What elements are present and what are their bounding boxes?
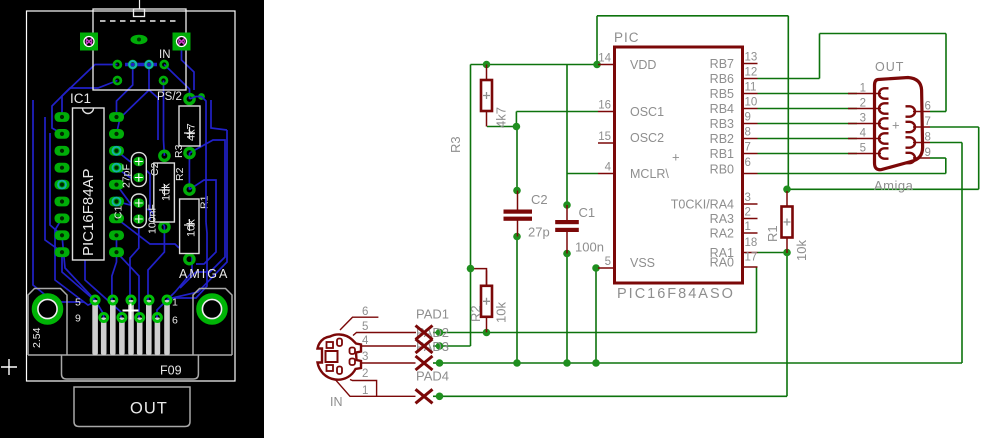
junction C1 bottom bbox=[563, 250, 571, 258]
DB9 pin 5 bbox=[848, 143, 889, 159]
junction OSC1 node bbox=[513, 123, 521, 131]
wire trace PS2 pad1 to IC1 left bbox=[62, 65, 117, 118]
wire C1 bottom drop bbox=[566, 254, 568, 364]
op-amp / IC U1 PIC16F84 bbox=[614, 30, 743, 302]
via top right bbox=[198, 93, 205, 100]
junction R1 bottom bbox=[783, 249, 791, 257]
F09 mounting hole right bbox=[199, 296, 225, 322]
wire DB9 pin7 wire bbox=[930, 126, 979, 128]
svg-text:10k: 10k bbox=[794, 240, 809, 261]
wire RB6 wire bbox=[758, 78, 820, 80]
IC IC1 outline bbox=[70, 91, 104, 260]
F09 pad 1 bbox=[91, 296, 99, 304]
svg-text:7: 7 bbox=[745, 142, 751, 154]
svg-text:RA2: RA2 bbox=[710, 227, 734, 241]
wire trace left inner bbox=[45, 117, 62, 252]
svg-text:4: 4 bbox=[605, 162, 612, 174]
connector X1 mini-DIN IN bbox=[318, 334, 362, 379]
PIC pin 11 RB5 bbox=[710, 82, 758, 102]
DIN pin 5 bbox=[353, 321, 416, 336]
DIN pin 2 bbox=[350, 368, 377, 396]
svg-text:R2: R2 bbox=[174, 167, 186, 181]
via highlight cyan IC pads bbox=[113, 147, 121, 155]
junction R3 top bbox=[483, 61, 491, 69]
svg-text:100nF: 100nF bbox=[147, 204, 159, 234]
svg-text:4: 4 bbox=[860, 128, 867, 140]
svg-text:100n: 100n bbox=[575, 240, 604, 255]
board outline bbox=[27, 11, 236, 381]
F09 pin bar 1 bbox=[92, 300, 98, 355]
PIC pin 7 RB1 bbox=[710, 142, 758, 162]
svg-text:RB3: RB3 bbox=[710, 117, 734, 131]
svg-text:4: 4 bbox=[362, 335, 369, 347]
wire trace PS2 pads 2-3 bridge bbox=[125, 63, 157, 67]
wire trace right v1 bbox=[189, 180, 216, 264]
F09 pin bar 4 bbox=[146, 300, 152, 355]
junction R2 bottom bbox=[483, 329, 491, 337]
PIC pin 13 RB7 bbox=[710, 52, 758, 72]
F09 mounting hole left bbox=[35, 296, 61, 322]
connector F09 footprint bbox=[28, 289, 232, 427]
svg-text:6: 6 bbox=[925, 101, 931, 113]
wire trace IC1 to F09 pad4 bbox=[112, 235, 117, 301]
resistor R2 (PCB) bbox=[154, 151, 186, 231]
wire VCC to VDD bbox=[471, 64, 599, 66]
svg-text:9: 9 bbox=[75, 313, 81, 325]
F09 pad 8 bbox=[136, 314, 144, 322]
svg-text:RB7: RB7 bbox=[710, 57, 734, 71]
wire C2 top riser bbox=[516, 127, 518, 191]
PIC pin 17 RA0 bbox=[710, 252, 758, 270]
svg-text:10k: 10k bbox=[161, 183, 173, 201]
F09 origin cross bbox=[123, 304, 139, 320]
wire trace IC1 pin9 to F09 pad5 bbox=[62, 252, 96, 301]
PIC pin 3 T0CKI/RA4 bbox=[671, 192, 758, 212]
wire trace under ic bbox=[85, 260, 121, 318]
board edge cross bbox=[1, 359, 17, 375]
wire PAD4 out bbox=[433, 395, 443, 397]
wire trace right v2 bbox=[180, 140, 225, 288]
wire PAD2 out bbox=[433, 345, 443, 347]
PIC pin 1 RA2 bbox=[710, 221, 758, 241]
IC1 pad right 4 bbox=[109, 163, 124, 173]
IC1 pad left 5 bbox=[55, 180, 70, 190]
PCB layout panel background bbox=[0, 0, 264, 438]
PS2 pad 1 bbox=[114, 61, 121, 68]
svg-text:VDD: VDD bbox=[630, 58, 656, 72]
PIC pin 2 RA3 bbox=[710, 207, 758, 227]
F09 pin labels bbox=[75, 297, 178, 327]
wire R3 bottom to OSC1 bbox=[487, 126, 516, 128]
wire MCLR wire bbox=[567, 173, 598, 175]
wire VCC rail vertical bbox=[470, 65, 472, 347]
svg-text:9: 9 bbox=[745, 112, 751, 124]
wire pin8 drop bbox=[961, 143, 963, 364]
DB9 pin 2 bbox=[848, 98, 889, 114]
svg-text:4k7: 4k7 bbox=[186, 123, 198, 141]
svg-text:1: 1 bbox=[172, 297, 178, 309]
svg-text:3: 3 bbox=[860, 113, 866, 125]
pad symbol PAD3 X bbox=[416, 356, 433, 370]
svg-text:PAD1: PAD1 bbox=[416, 307, 449, 322]
junction R2 branch bbox=[467, 265, 475, 273]
junction C2 bottom bbox=[513, 233, 521, 241]
IC1 pad left 4 bbox=[55, 163, 70, 173]
svg-text:AMIGA: AMIGA bbox=[179, 267, 229, 281]
svg-text:PAD4: PAD4 bbox=[416, 369, 449, 384]
svg-text:R2: R2 bbox=[468, 305, 483, 322]
svg-text:+: + bbox=[892, 118, 900, 133]
svg-text:2: 2 bbox=[860, 98, 866, 110]
svg-text:5: 5 bbox=[605, 256, 611, 268]
wire DB9 pin9 wire bbox=[930, 157, 946, 159]
wire pin7 riser bbox=[978, 127, 980, 189]
wire VDD top horizontal bbox=[597, 15, 788, 17]
wire DB9 pin6 riser bbox=[945, 34, 947, 112]
svg-text:10k: 10k bbox=[186, 219, 198, 237]
svg-text:5: 5 bbox=[362, 321, 368, 333]
svg-text:16: 16 bbox=[598, 100, 611, 112]
junction GND VSS bbox=[592, 359, 600, 367]
wire RA0 row bbox=[440, 332, 757, 334]
svg-text:13: 13 bbox=[745, 52, 758, 64]
svg-text:MCLR\: MCLR\ bbox=[630, 167, 669, 181]
svg-text:PIC16F84AP: PIC16F84AP bbox=[80, 168, 97, 256]
wire RA0 riser bbox=[756, 267, 758, 333]
svg-text:C1: C1 bbox=[579, 205, 596, 220]
wire trace IC1 to R1 bottom bbox=[117, 218, 180, 248]
wire RB4 to DB9 pin2 bbox=[758, 108, 858, 110]
junction PAD1 node bbox=[436, 329, 444, 337]
svg-text:7: 7 bbox=[925, 116, 931, 128]
PIC pin 18 RA1 bbox=[710, 237, 758, 260]
F09 pin bar 5 bbox=[164, 300, 170, 355]
svg-text:5: 5 bbox=[75, 297, 81, 309]
PIC pin 8 RB2 bbox=[710, 127, 758, 147]
F09 pin bar 8 bbox=[137, 318, 143, 356]
svg-text:RB6: RB6 bbox=[710, 72, 734, 86]
PIC pin 4 MCLR\ bbox=[598, 162, 669, 182]
pad symbol PAD2 X bbox=[416, 339, 433, 353]
DIN pin 4 bbox=[361, 335, 416, 347]
svg-text:18: 18 bbox=[745, 237, 758, 249]
wire RB0 wire bbox=[758, 173, 946, 175]
svg-text:8: 8 bbox=[925, 132, 931, 144]
PS2 pad 2 bbox=[129, 61, 136, 68]
wire DB9 pin9 riser bbox=[945, 158, 947, 174]
svg-text:6: 6 bbox=[172, 315, 178, 327]
junction C1 top bbox=[563, 201, 571, 209]
F09 pin bar 2 bbox=[110, 300, 116, 355]
wire trace PS2 pad6 to R2 bbox=[163, 81, 166, 156]
wire trace IC1 to C2 pad2 bbox=[117, 168, 139, 178]
svg-text:4k7: 4k7 bbox=[494, 107, 509, 128]
svg-text:R3: R3 bbox=[448, 136, 463, 153]
wire R1 top to pin7 horizontal bbox=[787, 188, 979, 190]
svg-text:OSC1: OSC1 bbox=[630, 105, 664, 119]
resistor R1 (PCB) bbox=[180, 185, 211, 264]
F09 pin bar 7 bbox=[119, 318, 125, 356]
IC1 pad left 7 bbox=[55, 214, 70, 224]
svg-text:R1: R1 bbox=[765, 225, 780, 242]
svg-text:6: 6 bbox=[362, 306, 368, 318]
IC1 pad right 7 bbox=[109, 214, 124, 224]
wire trace right vertical R1 bbox=[165, 222, 207, 302]
wire trace right upper bbox=[211, 100, 227, 130]
PIC pin 5 VSS bbox=[598, 256, 655, 270]
svg-text:R1: R1 bbox=[199, 195, 211, 209]
IC1 pad left 9 bbox=[55, 247, 70, 257]
svg-text:RA3: RA3 bbox=[710, 212, 734, 226]
DIN pin 3 bbox=[361, 351, 416, 363]
IC1 pad left 6 bbox=[55, 197, 70, 207]
wire R2 top branch bbox=[471, 269, 487, 286]
svg-text:IN: IN bbox=[330, 395, 343, 409]
svg-text:PIC16F84ASO: PIC16F84ASO bbox=[617, 286, 735, 302]
wire PAD1 out bbox=[433, 332, 443, 334]
svg-text:PIC: PIC bbox=[614, 30, 640, 45]
DB9 pin 9 bbox=[906, 147, 931, 163]
svg-text:OUT: OUT bbox=[875, 60, 904, 74]
wire trace IC1 to C1 bbox=[117, 185, 139, 203]
svg-text:OSC2: OSC2 bbox=[630, 131, 664, 145]
wire trace IC1 to F09 pad9 bbox=[62, 235, 104, 318]
svg-text:2: 2 bbox=[362, 368, 368, 380]
PS2 pad 6 bbox=[160, 77, 167, 84]
wire VDD riser bbox=[596, 16, 598, 65]
svg-text:F09: F09 bbox=[160, 364, 182, 378]
wire trace PS2 pad2 to IC1 right bbox=[117, 65, 133, 118]
connector X2 DB9 OUT bbox=[874, 60, 923, 193]
junction PAD2 node bbox=[436, 342, 444, 350]
wire trace C2 right bbox=[146, 170, 150, 220]
svg-text:1: 1 bbox=[860, 83, 866, 95]
DB9 pin 3 bbox=[848, 113, 889, 129]
wire RB1 to DB9 pin5 bbox=[758, 153, 858, 155]
svg-text:6: 6 bbox=[745, 157, 751, 169]
svg-text:C2: C2 bbox=[149, 162, 161, 176]
IC1 pad left 1 bbox=[55, 112, 70, 122]
wire RB3 to DB9 pin3 bbox=[758, 123, 858, 125]
wire VSS drop bbox=[595, 268, 597, 363]
junction VDD riser bbox=[593, 61, 601, 69]
wire trace via link bbox=[190, 97, 202, 100]
PS2 pad 3 bbox=[146, 61, 153, 68]
junction GND C2 bbox=[513, 359, 521, 367]
IC1 pad left 2 bbox=[55, 129, 70, 139]
wire trace IC1 to C2 bbox=[117, 151, 139, 162]
IC1 pad right 8 bbox=[109, 230, 124, 240]
PS2 pad 5 bbox=[114, 77, 121, 84]
IC1 pad right 1 bbox=[109, 112, 124, 122]
wire DB9 pin8 wire bbox=[930, 142, 962, 144]
pad symbol PAD1 X bbox=[416, 326, 433, 340]
resistor R2 bbox=[468, 270, 509, 332]
wire RB6 top horizontal bbox=[820, 33, 947, 35]
svg-text:10: 10 bbox=[745, 97, 758, 109]
PIC pin 16 OSC1 bbox=[598, 100, 664, 120]
PS2 mounting pad left bbox=[80, 33, 98, 51]
svg-text:RB4: RB4 bbox=[710, 102, 734, 116]
DIN pin 1 bbox=[336, 380, 416, 397]
svg-text:RA0: RA0 bbox=[710, 256, 734, 270]
IC1 pad right 3 bbox=[109, 146, 124, 156]
wire PAD4 row bbox=[440, 395, 787, 397]
wire RB2 to DB9 pin4 bbox=[758, 138, 858, 140]
PS2 mounting pad right bbox=[173, 33, 191, 51]
pad symbol PAD4 X bbox=[416, 389, 433, 403]
svg-text:C2: C2 bbox=[531, 192, 548, 207]
resistor R3 (PCB) bbox=[173, 94, 200, 158]
svg-text:Amiga: Amiga bbox=[874, 178, 914, 193]
DB9 pin 7 bbox=[906, 116, 931, 132]
wire GND row bbox=[440, 362, 962, 364]
svg-text:RB1: RB1 bbox=[710, 147, 734, 161]
svg-text:3: 3 bbox=[362, 351, 368, 363]
DB9 pin 4 bbox=[848, 128, 889, 144]
svg-text:RB2: RB2 bbox=[710, 132, 734, 146]
svg-text:17: 17 bbox=[745, 252, 758, 264]
wire OSC1 wire bbox=[516, 111, 598, 113]
wire RB6 riser bbox=[819, 34, 821, 79]
F09 pad 9 bbox=[153, 314, 161, 322]
wire trace R2 to F09 pad2 bbox=[148, 226, 164, 302]
IC1 pad right 5 bbox=[109, 180, 124, 190]
svg-text:5: 5 bbox=[860, 143, 866, 155]
junction R1 top bbox=[783, 186, 791, 194]
IC1 pad left 8 bbox=[55, 230, 70, 240]
svg-text:IN: IN bbox=[159, 49, 171, 61]
svg-text:2: 2 bbox=[745, 207, 751, 219]
F09 pad 7 bbox=[118, 314, 126, 322]
resistor R3 bbox=[448, 65, 509, 154]
via highlight cyan bbox=[129, 61, 136, 68]
svg-text:8: 8 bbox=[745, 127, 751, 139]
PS2 pad 4 bbox=[161, 61, 168, 68]
wire trace left rail bbox=[33, 100, 84, 302]
capacitor C1 bbox=[555, 205, 604, 255]
wire OSC1 drop bbox=[515, 112, 517, 127]
wire trace ic bottom fan2 bbox=[55, 218, 96, 305]
wire C2 bottom drop bbox=[516, 237, 518, 364]
svg-text:12: 12 bbox=[745, 67, 758, 79]
IC1 pad right 6 bbox=[109, 197, 124, 207]
capacitor C2 bbox=[504, 191, 550, 240]
svg-text:+: + bbox=[672, 150, 680, 165]
junction VSS bbox=[592, 264, 600, 272]
DB9 pin 1 bbox=[848, 83, 889, 99]
PS2 shield oval pad bbox=[131, 35, 148, 45]
PIC pin 10 RB4 bbox=[710, 97, 758, 117]
wire VDD right riser bbox=[787, 16, 789, 190]
wire PAD3 out bbox=[433, 362, 443, 364]
wire trace R1 to F09 pad7 bbox=[157, 244, 192, 318]
wire trace right rail bbox=[165, 130, 227, 302]
svg-text:VSS: VSS bbox=[630, 256, 655, 270]
wire trace left diag top bbox=[52, 81, 117, 134]
wire trace C1 to F09 pad3 bbox=[130, 219, 139, 302]
wire trace PS2 pad4 to R3 bbox=[164, 65, 189, 100]
PIC pin 14 VDD bbox=[598, 53, 656, 73]
F09 pad 5 bbox=[163, 296, 171, 304]
svg-text:OUT: OUT bbox=[130, 400, 168, 418]
junction PAD4 node bbox=[436, 393, 444, 401]
svg-text:RB5: RB5 bbox=[710, 87, 734, 101]
svg-text:2.54: 2.54 bbox=[31, 327, 43, 348]
wire VCC to PAD3 row bbox=[440, 345, 471, 347]
svg-text:R3: R3 bbox=[173, 144, 185, 158]
PS/2 connector footprint outline bbox=[93, 0, 186, 90]
F09 pin bar 3 bbox=[128, 300, 134, 355]
svg-text:C1: C1 bbox=[113, 205, 125, 219]
F09 pin bar 9 bbox=[155, 318, 161, 356]
F09 pad 2 bbox=[109, 296, 117, 304]
capacitor C1 (PCB) bbox=[113, 194, 159, 234]
DB9 pin 8 bbox=[906, 132, 931, 148]
F09 pad 3 bbox=[127, 296, 135, 304]
wire MCLR rail bbox=[566, 65, 568, 206]
IC1 pad right 9 bbox=[109, 247, 124, 257]
F09 pad 6 bbox=[100, 314, 108, 322]
PIC pin 6 RB0 bbox=[710, 157, 758, 177]
junction PAD3 node bbox=[436, 359, 444, 367]
wire trace right top bbox=[182, 46, 195, 90]
svg-text:PS/2: PS/2 bbox=[157, 91, 182, 103]
resistor R1 bbox=[765, 191, 809, 261]
DB9 pin 6 bbox=[906, 101, 931, 117]
svg-text:9: 9 bbox=[925, 147, 931, 159]
wire trace mid vertical bbox=[149, 90, 158, 140]
svg-text:15: 15 bbox=[598, 131, 611, 143]
svg-text:10k: 10k bbox=[494, 302, 509, 323]
svg-text:RB0: RB0 bbox=[710, 163, 734, 177]
svg-text:IC1: IC1 bbox=[70, 91, 91, 106]
svg-text:27pF: 27pF bbox=[121, 164, 133, 188]
IC1 pad left 3 bbox=[55, 146, 70, 156]
wire RA1 wire bbox=[758, 252, 788, 254]
wire trace left mid bbox=[50, 133, 62, 235]
svg-text:1: 1 bbox=[745, 221, 751, 233]
svg-text:14: 14 bbox=[598, 53, 611, 65]
wire RB5 to DB9 pin1 bbox=[758, 93, 858, 95]
svg-text:T0CKI/RA4: T0CKI/RA4 bbox=[671, 198, 734, 212]
svg-text:1: 1 bbox=[362, 385, 368, 397]
junction GND C1 bbox=[563, 359, 571, 367]
svg-text:3: 3 bbox=[745, 192, 751, 204]
junction C2 top bbox=[513, 187, 521, 195]
PIC pin 15 OSC2 bbox=[598, 131, 664, 145]
IC1 pad right 2 bbox=[109, 129, 124, 139]
wire trace right drop bbox=[202, 97, 207, 223]
capacitor C2 (PCB) bbox=[121, 153, 162, 188]
wire VSS link bbox=[596, 267, 599, 269]
DIN pin 6 bbox=[340, 306, 378, 330]
F09 pad 4 bbox=[145, 296, 153, 304]
wire trace PS2 pad3 to IC1 bbox=[117, 65, 150, 134]
wire DB9 pin6 wire bbox=[930, 111, 946, 113]
wire R1 bottom drop bbox=[786, 253, 788, 397]
svg-text:11: 11 bbox=[745, 82, 757, 94]
F09 pin bar 6 bbox=[101, 318, 107, 356]
wire trace R3 to R1 bbox=[188, 153, 190, 190]
wire trace IC1 to R2 bottom bbox=[117, 202, 165, 226]
PIC pin 12 RB6 bbox=[710, 67, 758, 87]
svg-text:27p: 27p bbox=[528, 225, 550, 240]
wire trace IC1 to F09 pad8 bbox=[117, 252, 140, 318]
PIC pin 9 RB3 bbox=[710, 112, 758, 132]
